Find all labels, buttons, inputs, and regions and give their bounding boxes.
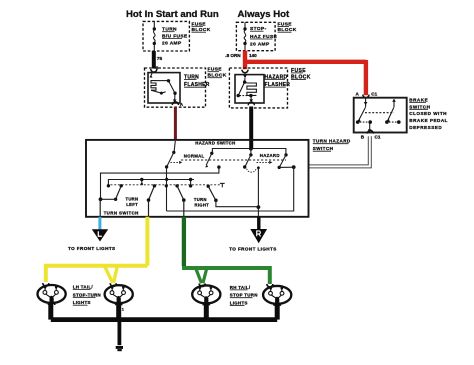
hazard switch feed bus L1: [212, 149, 286, 155]
hazard flasher dashed box: [229, 68, 287, 108]
connector R triangle: [250, 229, 267, 243]
svg-text:RH TAIL/: RH TAIL/: [230, 285, 251, 290]
terminal A connector at turn flasher output: [172, 102, 178, 105]
lamp LH outer (stop/turn bulb): [0, 0, 1, 1]
svg-text:Hot In Start and Run: Hot In Start and Run: [126, 9, 219, 20]
svg-text:LIGHTS: LIGHTS: [73, 300, 91, 305]
svg-text:C1: C1: [371, 91, 377, 96]
wire: black to front right lights: [257, 217, 260, 230]
svg-text:TURN SWITCH: TURN SWITCH: [104, 211, 139, 216]
turn flasher inner case: [148, 73, 180, 103]
brake switch bottom connector B/C1: [367, 131, 373, 134]
svg-text:BRAKE PEDAL: BRAKE PEDAL: [409, 118, 448, 123]
svg-text:Always Hot: Always Hot: [238, 9, 291, 20]
turn flasher element: [151, 71, 175, 99]
svg-text:LEFT: LEFT: [126, 202, 138, 207]
brake switch connector A/C1: [363, 95, 369, 98]
fuse F1 (TURN B/U FUSE 20 AMP): [153, 21, 155, 51]
FUSE BLOCK label (hazard flasher): [291, 68, 311, 81]
svg-text:RIGHT: RIGHT: [195, 203, 210, 208]
fuse F2 (STOP-HAZ FUSE 20 AMP): [244, 22, 246, 50]
RH tail/stop-turn lamp 4: [263, 284, 291, 306]
svg-text:SWITCH: SWITCH: [409, 104, 430, 109]
wire: turn flasher A to turn switch (dark red): [174, 107, 177, 140]
RH tail/stop-turn lamp 3: [192, 284, 220, 306]
svg-text:LIGHTS: LIGHTS: [230, 301, 248, 306]
TURN HAZARD SWITCH label: [313, 139, 351, 152]
node: right front feed: [257, 205, 261, 209]
wire: hazard pole2 throw to left lamp common (H0): [101, 167, 219, 198]
ground lead with connector: [118, 320, 122, 346]
BRAKE SWITCH CLOSED WITH BRAKE PEDAL DEPRESSED label: [409, 97, 448, 130]
TURN FLASHER label: [184, 74, 210, 88]
turn switch stop pole: [207, 185, 210, 188]
FUSE BLOCK label (F2): [278, 21, 297, 33]
turn/hazard switch box: [86, 140, 309, 217]
svg-text:B: B: [156, 65, 159, 70]
svg-text:20 AMP: 20 AMP: [162, 41, 182, 47]
ground bus along lamps: [51, 317, 277, 322]
brake switch box: [354, 98, 407, 133]
svg-text:1: 1: [122, 307, 124, 311]
svg-text:CLOSED WITH: CLOSED WITH: [409, 111, 447, 116]
lamp ground drops: [48, 303, 53, 320]
wire: brake feed to stop contacts (H3): [167, 167, 294, 211]
wire: hazard flasher output to hazard switch (black): [249, 107, 253, 149]
svg-text:BRAKE: BRAKE: [409, 97, 428, 102]
wire: hazard pole1 throw down to H3: [166, 167, 168, 211]
wire: brake switch B to turn switch (double line): [309, 136, 372, 168]
RH TAIL/STOP TURN LIGHTS label: [230, 285, 258, 306]
fuse F2 value labels: [250, 26, 278, 47]
svg-text:TURN: TURN: [126, 197, 139, 202]
hazard switch pole 1 blade: [167, 152, 174, 166]
brake switch poles: [358, 98, 397, 130]
fuse block F2 dashed box: [236, 22, 275, 50]
hazard flasher element: [238, 72, 256, 99]
stub to right-turn contact on H1: [190, 180, 192, 186]
wire: left pole down to front-left exit: [99, 199, 101, 217]
wire: red stop/haz feed: [243, 51, 366, 95]
yellow branch to lamp2: [105, 267, 113, 283]
connector at hazard flasher input: [242, 70, 248, 73]
svg-text:TURN: TURN: [194, 197, 207, 202]
HAZARD FLASHER label: [265, 74, 291, 88]
svg-text:.8 ORN: .8 ORN: [225, 53, 241, 58]
svg-text:NORMAL: NORMAL: [184, 153, 205, 158]
svg-text:TURN HAZARD: TURN HAZARD: [313, 139, 351, 144]
turn switch RH lamp pole: [175, 184, 178, 187]
wire: yellow LH turn feed: [145, 217, 149, 266]
svg-text:DEPRESSED: DEPRESSED: [409, 125, 442, 130]
connector at hazard flasher output: [248, 102, 254, 105]
svg-text:20 AMP: 20 AMP: [250, 41, 270, 47]
hazard switch mechanical link (dashed): [181, 159, 286, 161]
svg-text:75: 75: [157, 56, 163, 62]
node: turn flasher feed contact: [174, 141, 175, 151]
svg-text:STOP TURN: STOP TURN: [230, 293, 258, 298]
LH tail/stop-turn lamp 2: [105, 283, 133, 305]
hazard flasher inner case: [235, 75, 264, 103]
svg-text:SWITCH: SWITCH: [313, 146, 334, 151]
svg-text:140: 140: [249, 53, 257, 58]
hazard switch pole 4: [284, 153, 287, 156]
fuse block F1 dashed box: [143, 21, 189, 51]
fuse F1 value labels: [162, 27, 188, 47]
stub contact on H1: [141, 180, 143, 184]
T contact: [220, 183, 225, 187]
FUSE BLOCK label (F1): [192, 21, 211, 33]
hazard arrow: [257, 161, 270, 163]
hazard switch normal arrow: [171, 161, 180, 163]
svg-text:C1: C1: [375, 134, 381, 139]
turn switch left pole: [120, 184, 123, 187]
connector L triangle: [92, 229, 108, 241]
FUSE BLOCK label (turn flasher): [208, 67, 227, 79]
hazard switch pole 2: [210, 152, 213, 155]
svg-text:LH TAIL/: LH TAIL/: [73, 284, 94, 289]
turn switch feed line H1: [108, 180, 194, 185]
svg-text:STOP-TURN: STOP-TURN: [73, 292, 101, 297]
hazard switch pole 3 link arc (dashed): [247, 169, 256, 173]
LH tail/stop-turn lamp 1: [38, 283, 66, 305]
svg-text:HAZARD SWITCH: HAZARD SWITCH: [195, 141, 235, 146]
green branch to lamp3: [196, 269, 202, 284]
turn switch LH lamp pole: [153, 184, 156, 187]
node: brake feed junction: [292, 165, 296, 169]
wire: green RH turn feed: [182, 217, 186, 266]
svg-text:TO FRONT LIGHTS: TO FRONT LIGHTS: [68, 246, 116, 251]
terminal B connector at turn flasher input: [151, 69, 157, 72]
wire: fuse F1 to turn flasher (circuit 75): [152, 51, 156, 69]
turn flasher dashed box: [145, 68, 206, 107]
hazard switch pole 3: [250, 149, 252, 155]
svg-text:HAZARD: HAZARD: [260, 153, 280, 158]
turn switch mechanical link (dashed): [111, 184, 221, 186]
svg-text:TO FRONT LIGHTS: TO FRONT LIGHTS: [229, 247, 277, 252]
LH TAIL/STOP-TURN LIGHTS label: [73, 284, 101, 305]
wire: blue to front left lights: [98, 217, 101, 230]
